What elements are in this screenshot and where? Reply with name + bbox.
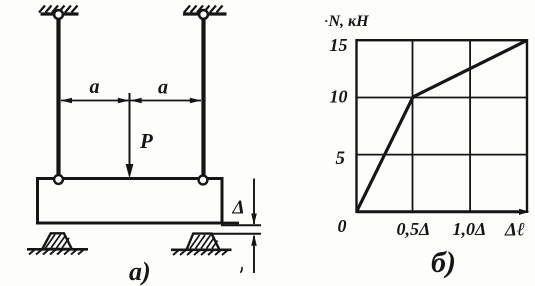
delta dimension upper line bbox=[253, 179, 255, 225]
arrow left tip at centre bbox=[130, 98, 142, 104]
grid horizontal 1 bbox=[357, 97, 528, 99]
beam bbox=[38, 179, 223, 224]
right support baseline bbox=[171, 249, 232, 252]
svg-text:5: 5 bbox=[336, 148, 346, 169]
ink dot before N bbox=[325, 20, 327, 22]
svg-text:a: a bbox=[90, 76, 100, 98]
delta dimension lower arrow bbox=[251, 234, 257, 246]
left support trapezoid bbox=[42, 233, 72, 249]
svg-text:б): б) bbox=[431, 246, 456, 279]
svg-text:Δℓ: Δℓ bbox=[504, 220, 525, 241]
force P line bbox=[129, 93, 131, 175]
grid horizontal 2 bbox=[357, 154, 528, 156]
svg-text:15: 15 bbox=[330, 35, 348, 55]
left ground hatching bbox=[29, 250, 84, 255]
svg-text:P: P bbox=[139, 129, 153, 153]
extension line beam bottom bbox=[221, 224, 261, 226]
svg-text:0,5Δ: 0,5Δ bbox=[397, 219, 431, 239]
x axis arrowhead bbox=[519, 209, 530, 215]
left rod bbox=[56, 15, 60, 181]
stray ink speck bbox=[240, 267, 242, 273]
beam bottom overhang bbox=[221, 222, 239, 225]
left ceiling hatching bbox=[39, 6, 78, 13]
left top pin bbox=[54, 10, 63, 19]
force P arrowhead bbox=[126, 164, 134, 179]
grid vertical 2 bbox=[469, 40, 471, 212]
arrow right tip at right rod bbox=[190, 98, 202, 104]
graph box bbox=[357, 40, 528, 212]
svg-text:a: a bbox=[158, 77, 168, 99]
svg-text:10: 10 bbox=[330, 87, 348, 107]
left support interior hatching bbox=[46, 235, 70, 249]
dimension line a (left half) bbox=[61, 100, 129, 102]
right beam pin bbox=[199, 176, 208, 185]
svg-text:а): а) bbox=[129, 257, 151, 286]
svg-text:1,0Δ: 1,0Δ bbox=[453, 219, 487, 239]
svg-text:0: 0 bbox=[338, 216, 347, 236]
x axis line bbox=[357, 210, 526, 213]
arrow right tip at centre bbox=[118, 98, 130, 104]
left beam pin bbox=[54, 175, 63, 184]
svg-text:N, кН: N, кН bbox=[328, 13, 370, 30]
right top pin bbox=[199, 10, 208, 19]
svg-text:Δ: Δ bbox=[232, 198, 245, 219]
extension line support top bbox=[212, 233, 262, 235]
right ceiling hatching bbox=[184, 6, 223, 13]
delta dimension lower line bbox=[253, 236, 255, 273]
right support trapezoid bbox=[187, 234, 220, 250]
arrow left tip at left rod bbox=[61, 98, 73, 104]
left ceiling bar bbox=[41, 12, 79, 15]
delta dimension upper arrow bbox=[251, 214, 257, 226]
right support interior hatching bbox=[190, 235, 218, 249]
curve N(delta) bbox=[357, 41, 527, 211]
right rod bbox=[201, 15, 205, 181]
left support baseline bbox=[27, 248, 88, 251]
dimension line a (right half) bbox=[131, 100, 202, 102]
grid vertical 1 bbox=[412, 40, 414, 212]
right ground hatching bbox=[173, 250, 228, 255]
right ceiling bar bbox=[183, 12, 227, 15]
